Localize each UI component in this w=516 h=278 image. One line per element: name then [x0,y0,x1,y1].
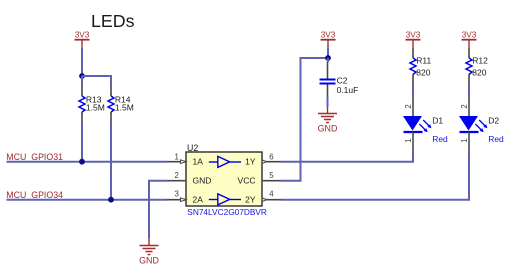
svg-text:0.1uF: 0.1uF [337,85,359,95]
wire pin 4 to D2 [281,152,469,200]
wire net MCU_GPIO34 to pin 3 [7,199,168,201]
svg-text:2: 2 [404,104,413,108]
capacitor C2 0.1uF [320,62,359,97]
svg-text:2: 2 [174,171,178,180]
pin 3 (2A) stub [167,198,186,202]
svg-text:1.5M: 1.5M [86,102,105,112]
svg-text:1A: 1A [193,156,204,166]
svg-text:Red: Red [432,134,448,144]
LED D1 [403,97,448,152]
buffer symbol 1 inside U2 [209,156,241,167]
power port 3V3 (above C2) [321,30,336,48]
svg-text:SN74LVC2G07DBVR: SN74LVC2G07DBVR [187,207,267,217]
svg-text:3V3: 3V3 [321,30,336,39]
svg-text:D2: D2 [488,116,499,126]
svg-text:R12: R12 [472,55,488,65]
ground GND (under U2 pin 2) [139,238,159,265]
op-amp U2 SN74LVC2G07DBVR body [186,152,262,206]
power port 3V3 (above R11) [406,30,421,48]
wire IC pin2 to ground [149,181,167,238]
wire junction down to C2 [327,58,329,62]
svg-text:5: 5 [269,171,274,180]
svg-text:LEDs: LEDs [91,11,135,31]
buffer symbol 2 inside U2 [209,194,241,205]
svg-text:3V3: 3V3 [75,30,90,39]
svg-text:820: 820 [472,67,486,77]
svg-text:C2: C2 [337,75,348,85]
svg-text:1: 1 [404,138,413,142]
wire junction down to R13 [81,76,83,86]
svg-text:U2: U2 [187,143,198,153]
pin 4 (2Y) stub [262,198,281,202]
node junction 3V3/R13/R14 [79,73,85,79]
svg-text:D1: D1 [432,116,443,126]
svg-text:MCU_GPIO31: MCU_GPIO31 [6,152,63,162]
wire 3V3 to C2 junction [327,48,329,58]
svg-text:1: 1 [174,153,178,162]
svg-text:4: 4 [269,190,274,199]
pin 5 (VCC) stub [262,180,281,182]
svg-text:3: 3 [174,190,178,199]
wire R11 to D1 [412,85,414,98]
node junction C2/VCC/3V3 [325,55,331,61]
wire pin 6 to D1 [281,152,413,162]
pin 1 (1A) stub [167,160,186,164]
power port 3V3 (left, net to R13/R14) [75,30,90,48]
svg-text:820: 820 [416,67,430,77]
svg-text:1Y: 1Y [245,156,256,166]
svg-text:VCC: VCC [238,175,256,185]
svg-text:3V3: 3V3 [406,30,421,39]
pin 2 (GND) stub [167,180,186,182]
resistor R11 820 [410,48,432,85]
power port 3V3 (above R12) [462,30,477,48]
svg-text:3V3: 3V3 [462,30,477,39]
ground GND (under C2) [318,107,338,133]
node junction R13/GPIO31 [79,159,85,165]
svg-text:1.5M: 1.5M [115,102,134,112]
wire net MCU_GPIO31 to pin 1 [7,161,168,163]
svg-text:6: 6 [269,152,273,161]
resistor R13 1.5M [79,86,105,122]
wire R12 to D2 [468,85,470,98]
svg-text:GND: GND [193,175,212,185]
svg-text:2Y: 2Y [245,194,256,204]
pin 6 (1Y) stub [262,160,281,164]
wire 3V3 down to junction [81,48,83,76]
wire C2 to GND [327,97,329,107]
svg-text:R11: R11 [416,55,431,65]
svg-text:2: 2 [460,104,469,108]
wire branch to R14 column [82,76,111,86]
node junction R14/GPIO34 [108,197,114,203]
LED D2 [459,97,504,152]
wire pin 5 to 3V3/C2 [281,58,328,181]
svg-text:Red: Red [488,134,504,144]
svg-text:GND: GND [139,255,159,265]
svg-text:MCU_GPIO34: MCU_GPIO34 [6,190,63,200]
svg-text:2A: 2A [193,194,204,204]
svg-text:1: 1 [460,138,469,142]
resistor R14 1.5M [108,86,134,122]
wire R13 down to GPIO31 net [81,122,83,162]
svg-text:GND: GND [318,123,338,133]
wire R14 down to GPIO34 net [110,122,112,200]
resistor R12 820 [466,48,488,85]
